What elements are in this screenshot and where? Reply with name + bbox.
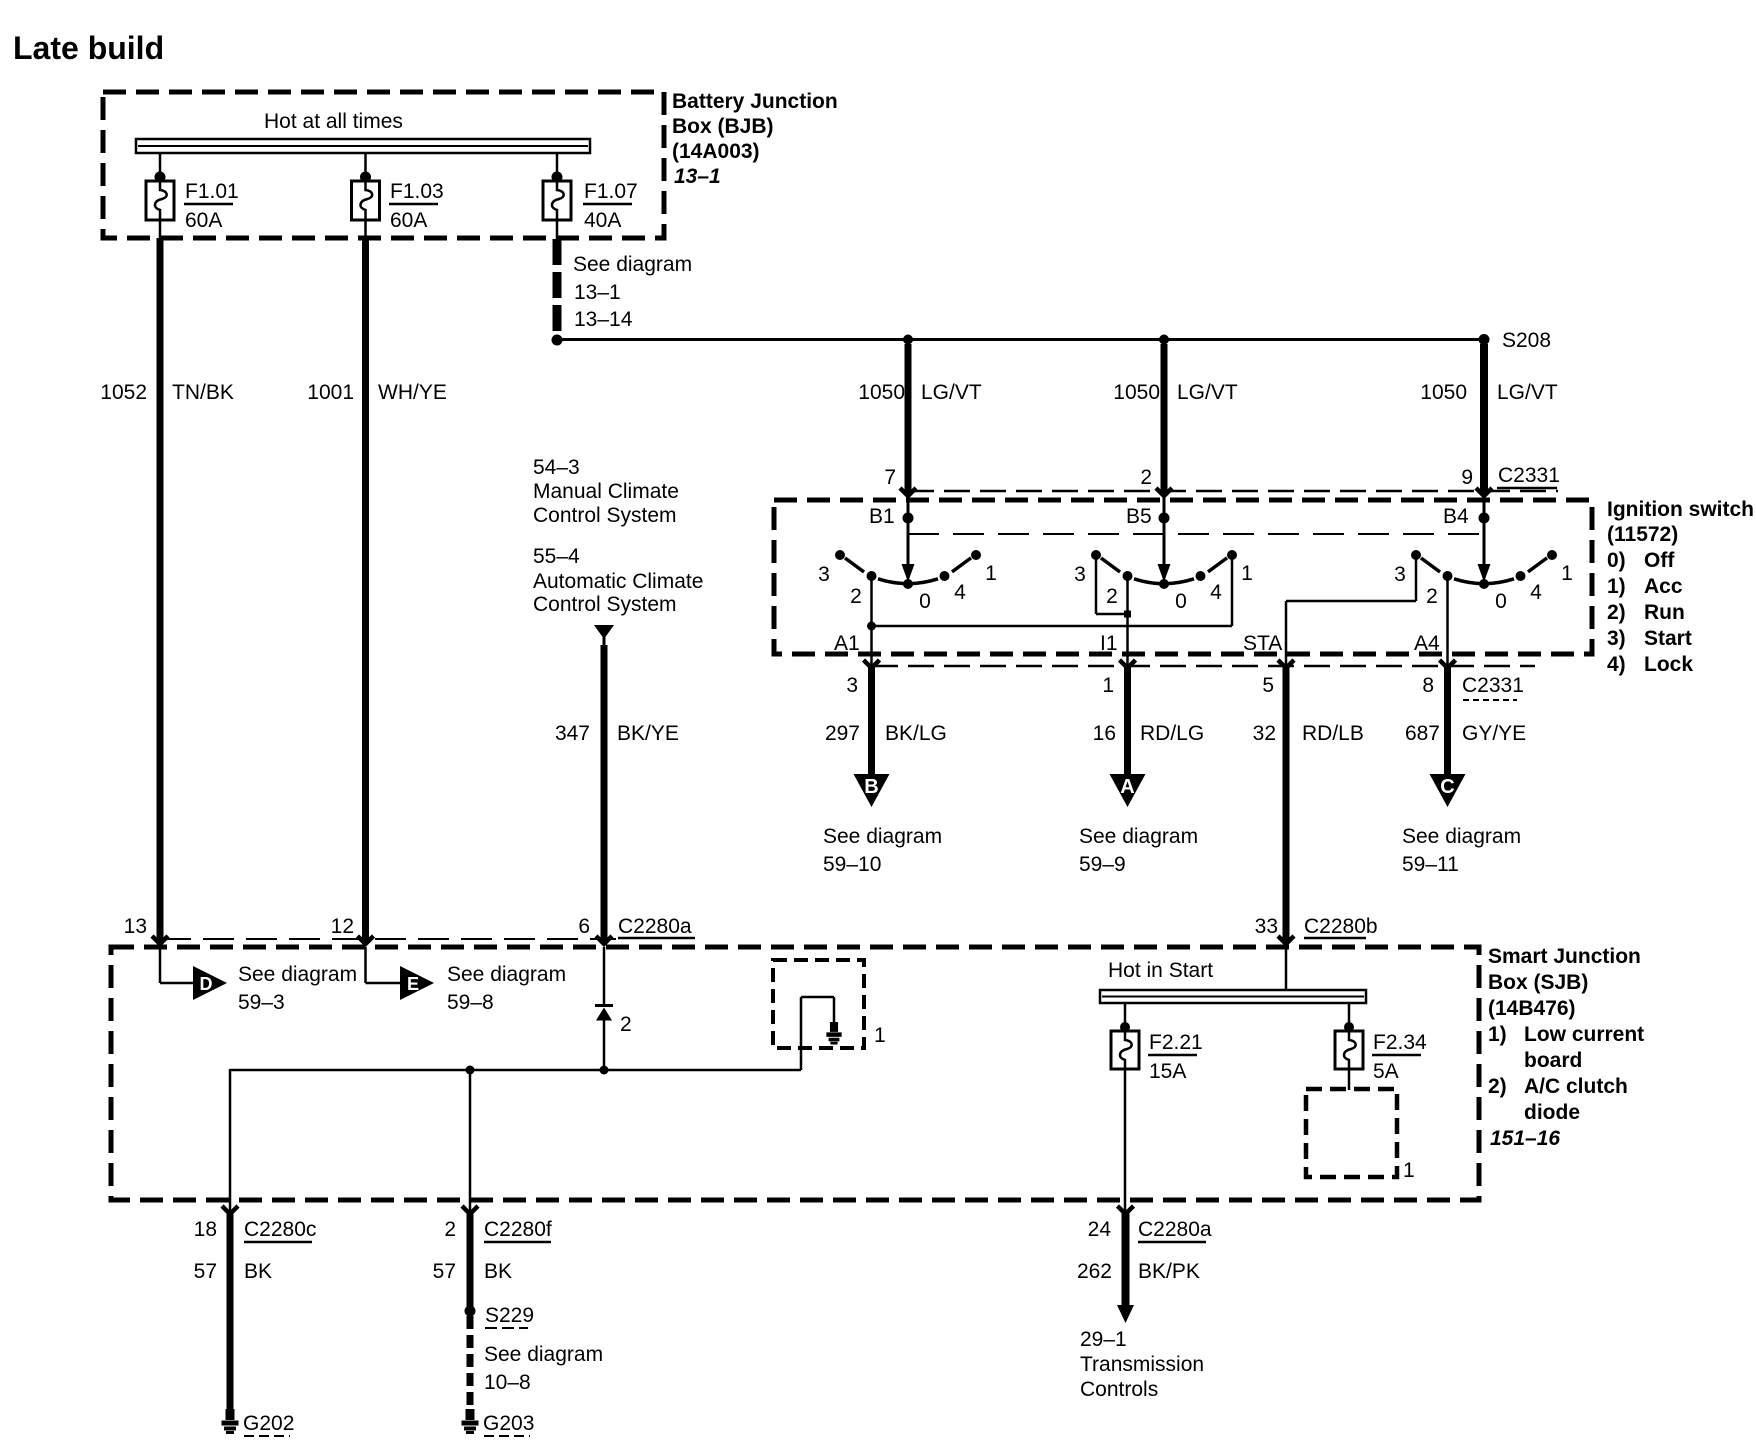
svg-text:262: 262 xyxy=(1077,1260,1112,1283)
pin 5 exit arrow xyxy=(1278,660,1294,668)
svg-text:Control System: Control System xyxy=(533,504,677,527)
switch contact arc B5 xyxy=(1101,558,1227,584)
svg-text:See diagram: See diagram xyxy=(823,825,942,848)
svg-text:See diagram: See diagram xyxy=(447,963,566,986)
label See diagram 59-9 xyxy=(1079,825,1198,876)
contact dot position 2 (B4) xyxy=(1443,571,1453,581)
svg-text:Box (BJB): Box (BJB) xyxy=(672,115,774,138)
fuse F2.34 5A xyxy=(1335,1031,1427,1083)
svg-text:57: 57 xyxy=(194,1260,217,1283)
Battery Junction Box (BJB) enclosure xyxy=(103,92,664,238)
svg-text:Ignition switch: Ignition switch xyxy=(1607,498,1754,521)
svg-text:S208: S208 xyxy=(1502,329,1551,352)
wire fuse F1.03 to box edge xyxy=(364,220,367,240)
label 347 BK/YE xyxy=(555,722,679,745)
svg-text:59–10: 59–10 xyxy=(823,853,881,876)
label See diagram 59-11 xyxy=(1402,825,1521,876)
svg-text:3: 3 xyxy=(1394,563,1406,586)
svg-text:Late build: Late build xyxy=(13,30,164,66)
svg-text:C2280f: C2280f xyxy=(484,1218,552,1241)
ground bus horizontal wire xyxy=(230,1069,801,1072)
svg-text:2: 2 xyxy=(1140,466,1152,489)
svg-text:1: 1 xyxy=(985,562,997,585)
wire fuse F1.07 to box edge xyxy=(556,220,559,240)
contact dot position 3 (B5) xyxy=(1091,550,1101,560)
svg-text:(14B476): (14B476) xyxy=(1488,997,1576,1020)
splice S229 xyxy=(465,1304,535,1328)
wire S229 dashed to G203 xyxy=(467,1316,474,1408)
svg-text:151–16: 151–16 xyxy=(1490,1127,1560,1150)
off-page arrow B xyxy=(854,774,890,807)
svg-text:4: 4 xyxy=(1210,581,1222,604)
position labels (B5) xyxy=(1074,562,1253,613)
svg-text:59–9: 59–9 xyxy=(1079,853,1126,876)
wire I1 from position 2 of B5 xyxy=(1126,576,1129,669)
position labels (B4) xyxy=(1394,562,1573,613)
pin 1 exit arrow xyxy=(1120,660,1136,668)
label 16 RD/LG xyxy=(1093,722,1205,745)
junction dot above fuse F1.03 xyxy=(360,172,371,183)
svg-text:57: 57 xyxy=(433,1260,456,1283)
wire pin 12 to arrow E xyxy=(366,947,401,983)
svg-text:1): 1) xyxy=(1607,575,1626,598)
label 32 RD/LB xyxy=(1253,722,1364,745)
connector C2280b label xyxy=(1304,915,1378,938)
svg-text:347: 347 xyxy=(555,722,590,745)
node S208 junction dot xyxy=(552,335,563,346)
title Late build xyxy=(13,30,164,66)
label See diagram 10-8 xyxy=(484,1343,603,1394)
svg-text:1: 1 xyxy=(1561,562,1573,585)
svg-text:Off: Off xyxy=(1644,549,1675,572)
contact dot position 3 (B4) xyxy=(1411,550,1421,560)
label 54-3 Manual Climate Control System xyxy=(533,456,679,527)
svg-text:Control System: Control System xyxy=(533,593,677,616)
wire to internal ground xyxy=(801,997,834,1070)
contact dot position 1 (B4) xyxy=(1547,550,1557,560)
off-page arrow E xyxy=(400,966,434,1000)
wire fuse F1.01 to box edge xyxy=(159,220,162,240)
svg-text:Acc: Acc xyxy=(1644,575,1683,598)
svg-text:297: 297 xyxy=(825,722,860,745)
svg-text:Controls: Controls xyxy=(1080,1378,1158,1401)
svg-text:13: 13 xyxy=(124,915,147,938)
svg-text:2: 2 xyxy=(850,585,862,608)
svg-text:Lock: Lock xyxy=(1644,653,1693,676)
svg-text:1050: 1050 xyxy=(858,381,905,404)
label 1001 WH/YE xyxy=(307,381,447,404)
contact dot position 3 (B1) xyxy=(835,550,845,560)
svg-text:Battery Junction: Battery Junction xyxy=(672,90,838,113)
svg-text:2: 2 xyxy=(1426,585,1438,608)
pin 12 entry arrow xyxy=(331,915,374,944)
svg-text:1: 1 xyxy=(1403,1159,1415,1182)
junction dot S208 branch 2 xyxy=(1159,335,1169,345)
label 29-1 Transmission Controls xyxy=(1080,1328,1204,1401)
svg-text:1: 1 xyxy=(1241,562,1253,585)
svg-text:A4: A4 xyxy=(1414,632,1440,655)
svg-text:54–3: 54–3 xyxy=(533,456,580,479)
wire pin 6 to diode xyxy=(603,947,606,1005)
bus bar Hot at all times xyxy=(136,139,590,153)
junction dot B5 xyxy=(1159,513,1170,524)
connector C2331 dashed line bottom xyxy=(872,665,1535,668)
junction dot above fuse F1.01 xyxy=(155,172,166,183)
bus bar Hot in Start xyxy=(1100,990,1366,1003)
svg-text:0): 0) xyxy=(1607,549,1626,572)
contact dot position 0 (B1) xyxy=(903,579,913,589)
svg-text:0: 0 xyxy=(1495,590,1507,613)
svg-text:F1.03: F1.03 xyxy=(390,180,444,203)
svg-text:See diagram: See diagram xyxy=(1402,825,1521,848)
connector C2280a top label xyxy=(618,915,695,938)
connector C2331 dashed line top xyxy=(908,490,1558,493)
svg-text:16: 16 xyxy=(1093,722,1116,745)
pin 3 exit arrow xyxy=(864,660,880,668)
SJB label xyxy=(1488,945,1644,1150)
svg-text:15A: 15A xyxy=(1149,1060,1186,1083)
ground G202 xyxy=(222,1409,295,1436)
svg-text:Low current: Low current xyxy=(1524,1023,1644,1046)
connector C2280f label xyxy=(484,1218,552,1242)
switch wiper arrow B5 xyxy=(1158,496,1171,582)
pin 7 xyxy=(884,466,896,489)
svg-text:(11572): (11572) xyxy=(1607,523,1678,546)
label See diagram 59-10 xyxy=(823,825,942,876)
svg-text:0: 0 xyxy=(1175,590,1187,613)
label 57 BK (G203) xyxy=(433,1260,512,1283)
svg-text:(14A003): (14A003) xyxy=(672,140,760,163)
svg-text:13–1: 13–1 xyxy=(574,281,621,304)
svg-text:6: 6 xyxy=(578,915,590,938)
contact dot position 2 (B1) xyxy=(867,571,877,581)
off-page arrow C xyxy=(1430,774,1466,807)
svg-text:G203: G203 xyxy=(483,1412,534,1435)
svg-text:8: 8 xyxy=(1422,674,1434,697)
svg-text:board: board xyxy=(1524,1049,1582,1072)
label Hot in Start xyxy=(1108,959,1213,982)
pin 13 entry arrow xyxy=(124,915,168,944)
junction dot above fuse F2.34 xyxy=(1344,1022,1354,1032)
svg-text:GY/YE: GY/YE xyxy=(1462,722,1526,745)
connector C2280a dashed line xyxy=(160,938,616,940)
terminal B4 label xyxy=(1443,505,1469,528)
wire A1 from position 2 of B1 xyxy=(870,576,873,669)
svg-text:Start: Start xyxy=(1644,627,1692,650)
wire pin 33 to bus bar xyxy=(1285,947,1288,990)
terminal A4 label xyxy=(1414,632,1440,655)
svg-text:B1: B1 xyxy=(869,505,895,528)
label 1052 TN/BK xyxy=(100,381,234,404)
svg-text:C2280c: C2280c xyxy=(244,1218,316,1241)
wire bus bar to fuse F1.03 xyxy=(364,152,367,177)
svg-text:55–4: 55–4 xyxy=(533,545,580,568)
svg-text:A: A xyxy=(1120,776,1134,798)
wire fuse F2.21 to pin 24 exit xyxy=(1124,1069,1127,1213)
wire bus bar to fuse F1.07 xyxy=(556,152,559,177)
svg-text:S229: S229 xyxy=(485,1304,534,1327)
fuse F1.01 60A xyxy=(146,180,239,232)
wire bus bar to fuse F2.34 xyxy=(1348,1002,1351,1027)
svg-text:BK/PK: BK/PK xyxy=(1138,1260,1200,1283)
internal ground symbol xyxy=(826,1022,841,1043)
diode 2 (A/C clutch diode) xyxy=(595,1006,632,1037)
junction dot B1 xyxy=(903,513,914,524)
label 262 BK/PK xyxy=(1077,1260,1200,1283)
svg-text:29–1: 29–1 xyxy=(1080,1328,1127,1351)
junction dot S208 branch 1 xyxy=(903,335,913,345)
svg-text:STA: STA xyxy=(1243,632,1282,655)
svg-text:13–1: 13–1 xyxy=(674,165,721,188)
svg-text:2: 2 xyxy=(620,1013,632,1036)
wire 1052 TN/BK xyxy=(157,238,164,941)
pin 6 entry arrow xyxy=(578,915,612,944)
pin 8 exit arrow xyxy=(1440,660,1456,668)
svg-text:59–8: 59–8 xyxy=(447,991,494,1014)
connector C2331 bottom label xyxy=(1462,674,1524,700)
label 1050 LG/VT (B4) xyxy=(1420,381,1558,404)
svg-text:1): 1) xyxy=(1488,1023,1507,1046)
svg-text:A1: A1 xyxy=(834,632,860,655)
wire origin arrow 347 xyxy=(594,625,614,647)
label See diagram 13-1 13-14 xyxy=(573,253,692,331)
svg-text:5: 5 xyxy=(1262,674,1274,697)
wire 1050 LG/VT (B5) xyxy=(1156,344,1172,496)
pin 2 exit arrow xyxy=(444,1206,478,1241)
pin 18 exit arrow xyxy=(194,1206,238,1241)
wire 1001 WH/YE xyxy=(362,238,369,941)
position labels (B1) xyxy=(818,562,997,613)
svg-text:4: 4 xyxy=(1530,581,1542,604)
wire S208 horizontal xyxy=(557,338,1484,341)
svg-text:40A: 40A xyxy=(584,209,621,232)
svg-text:1: 1 xyxy=(1102,674,1114,697)
pin 33 entry arrow xyxy=(1255,915,1294,944)
svg-text:RD/LB: RD/LB xyxy=(1302,722,1364,745)
ignition switch internal dashed line xyxy=(908,533,1484,535)
svg-text:E: E xyxy=(407,974,419,994)
wire 32 RD/LB xyxy=(1283,667,1290,941)
svg-text:BK: BK xyxy=(244,1260,272,1283)
svg-text:C2280a: C2280a xyxy=(1138,1218,1212,1241)
BJB label xyxy=(672,90,838,188)
wire fuse F2.34 to A/C clutch diode xyxy=(1348,1069,1351,1090)
svg-text:1050: 1050 xyxy=(1420,381,1467,404)
svg-text:7: 7 xyxy=(884,466,896,489)
wire to pin 2 exit xyxy=(469,1070,472,1213)
svg-text:3: 3 xyxy=(846,674,858,697)
svg-text:I1: I1 xyxy=(1100,632,1118,655)
wire 347 BK/YE xyxy=(601,645,608,941)
junction dot above fuse F2.21 xyxy=(1120,1022,1130,1032)
wire 1050 LG/VT (B4) xyxy=(1476,344,1492,496)
svg-text:Manual Climate: Manual Climate xyxy=(533,480,679,503)
fuse F1.03 60A xyxy=(352,180,444,232)
label 57 BK (G202) xyxy=(194,1260,272,1283)
wire diode to ground bus xyxy=(603,1020,606,1070)
junction dot B4 xyxy=(1479,513,1490,524)
svg-text:LG/VT: LG/VT xyxy=(921,381,982,404)
svg-text:4: 4 xyxy=(954,581,966,604)
label 1050 LG/VT (B1) xyxy=(858,381,982,404)
svg-text:Hot in Start: Hot in Start xyxy=(1108,959,1213,982)
svg-text:59–11: 59–11 xyxy=(1402,853,1459,876)
svg-text:BK: BK xyxy=(484,1260,512,1283)
svg-text:C2280a: C2280a xyxy=(618,915,692,938)
wire bus bar to fuse F1.01 xyxy=(159,152,162,177)
svg-text:33: 33 xyxy=(1255,915,1278,938)
terminal B1 label xyxy=(869,505,895,528)
contact dot position 0 (B4) xyxy=(1479,579,1489,589)
pin 1 label xyxy=(1102,674,1114,697)
svg-text:5A: 5A xyxy=(1373,1060,1399,1083)
pin 9 xyxy=(1461,466,1473,489)
svg-text:0: 0 xyxy=(919,590,931,613)
label See diagram 59-3 xyxy=(238,963,357,1014)
svg-text:See diagram: See diagram xyxy=(573,253,692,276)
svg-text:1001: 1001 xyxy=(307,381,354,404)
svg-text:1050: 1050 xyxy=(1113,381,1160,404)
pin 8 label xyxy=(1422,674,1434,697)
low current board enclosure xyxy=(773,960,864,1048)
junction dot C2280f branch xyxy=(466,1066,475,1075)
wire A4 from position 2 of B4 xyxy=(1446,574,1449,669)
terminal B5 label xyxy=(1126,505,1152,528)
terminal I1 label xyxy=(1100,632,1118,655)
connector C2331 top label xyxy=(1497,464,1560,488)
contact dot position 4 (B4) xyxy=(1516,571,1526,581)
label See diagram 59-8 xyxy=(447,963,566,1014)
junction dot above fuse F1.07 xyxy=(552,172,563,183)
svg-text:Automatic Climate: Automatic Climate xyxy=(533,570,703,593)
svg-text:60A: 60A xyxy=(390,209,427,232)
wire 57 BK (G202) xyxy=(227,1213,234,1409)
pin 24 exit arrow xyxy=(1088,1206,1134,1241)
svg-text:BK/LG: BK/LG xyxy=(885,722,947,745)
svg-text:WH/YE: WH/YE xyxy=(378,381,447,404)
svg-text:3: 3 xyxy=(818,563,830,586)
connector C2280c label xyxy=(244,1218,316,1242)
off-page arrow A xyxy=(1110,774,1146,807)
svg-text:Smart Junction: Smart Junction xyxy=(1488,945,1641,968)
svg-text:C2331: C2331 xyxy=(1462,674,1524,697)
label 55-4 Automatic Climate Control System xyxy=(533,545,703,616)
switch contact arc B4 xyxy=(1421,558,1547,584)
contact dot position 4 (B1) xyxy=(940,571,950,581)
svg-text:C: C xyxy=(1440,776,1454,798)
svg-text:RD/LG: RD/LG xyxy=(1140,722,1204,745)
svg-text:13–14: 13–14 xyxy=(574,308,633,331)
svg-text:C2280b: C2280b xyxy=(1304,915,1378,938)
connector C2280a bottom label xyxy=(1138,1218,1212,1242)
svg-text:D: D xyxy=(200,974,213,994)
svg-text:3): 3) xyxy=(1607,627,1626,650)
pin 2 xyxy=(1140,466,1152,489)
svg-text:F1.01: F1.01 xyxy=(185,180,239,203)
svg-text:2: 2 xyxy=(1106,585,1118,608)
wire pin 13 to arrow D xyxy=(160,947,193,983)
wire 297 BK/LG xyxy=(868,667,875,775)
Smart Junction Box (SJB) enclosure xyxy=(111,947,1479,1200)
svg-text:F2.21: F2.21 xyxy=(1149,1031,1203,1054)
contact dot position 2 (B5) xyxy=(1123,571,1133,581)
svg-text:C2331: C2331 xyxy=(1498,464,1560,487)
svg-text:59–3: 59–3 xyxy=(238,991,285,1014)
contact dot position 1 (B1) xyxy=(971,550,981,560)
svg-text:A/C clutch: A/C clutch xyxy=(1524,1075,1628,1098)
svg-text:2: 2 xyxy=(444,1218,456,1241)
ground G203 xyxy=(462,1409,535,1436)
svg-text:60A: 60A xyxy=(185,209,222,232)
svg-text:1: 1 xyxy=(874,1024,886,1047)
arrow to transmission controls xyxy=(1117,1305,1134,1323)
svg-text:18: 18 xyxy=(194,1218,217,1241)
wire A1 to position 1 of B5 xyxy=(872,556,1233,626)
svg-text:Hot at all times: Hot at all times xyxy=(264,110,403,133)
svg-text:B5: B5 xyxy=(1126,505,1152,528)
wire F1.07 dashed to S208 xyxy=(553,239,562,334)
svg-text:9: 9 xyxy=(1461,466,1473,489)
fuse F1.07 40A xyxy=(543,180,638,232)
label 687 GY/YE xyxy=(1405,722,1526,745)
svg-text:12: 12 xyxy=(331,915,354,938)
wire I1 from position 3 of B5 xyxy=(1096,556,1128,614)
wire 16 RD/LG xyxy=(1124,667,1131,775)
switch contact arc B1 xyxy=(845,558,971,584)
svg-text:B: B xyxy=(864,776,878,798)
svg-text:32: 32 xyxy=(1253,722,1276,745)
contact dot position 4 (B5) xyxy=(1196,571,1206,581)
contact dot position 1 (B5) xyxy=(1227,550,1237,560)
svg-text:2): 2) xyxy=(1488,1075,1507,1098)
svg-text:G202: G202 xyxy=(243,1412,294,1435)
svg-text:F2.34: F2.34 xyxy=(1373,1031,1427,1054)
svg-text:LG/VT: LG/VT xyxy=(1497,381,1558,404)
junction dot S208 branch 3 xyxy=(1479,334,1490,345)
svg-text:diode: diode xyxy=(1524,1101,1580,1124)
label 297 BK/LG xyxy=(825,722,947,745)
svg-text:BK/YE: BK/YE xyxy=(617,722,679,745)
wire 687 GY/YE xyxy=(1444,667,1451,775)
switch wiper arrow B1 xyxy=(902,496,915,582)
switch wiper arrow B4 xyxy=(1478,496,1491,582)
wire 262 BK/PK xyxy=(1122,1213,1130,1306)
svg-text:2): 2) xyxy=(1607,601,1626,624)
svg-text:See diagram: See diagram xyxy=(1079,825,1198,848)
svg-text:TN/BK: TN/BK xyxy=(172,381,234,404)
svg-text:3: 3 xyxy=(1074,563,1086,586)
wire to pin 18 exit xyxy=(229,1069,232,1213)
svg-text:Box (SJB): Box (SJB) xyxy=(1488,971,1588,994)
wire STA from position 3 of B4 xyxy=(1286,556,1416,669)
junction dot diode branch xyxy=(600,1066,609,1075)
terminal A1 label xyxy=(834,632,860,655)
svg-text:24: 24 xyxy=(1088,1218,1112,1241)
wire bus bar to fuse F2.21 xyxy=(1124,1002,1127,1027)
svg-text:1052: 1052 xyxy=(100,381,147,404)
svg-text:See diagram: See diagram xyxy=(238,963,357,986)
label 1050 LG/VT (B5) xyxy=(1113,381,1238,404)
label Hot at all times xyxy=(264,110,403,133)
label 1 (low current board) xyxy=(874,1024,886,1047)
svg-text:B4: B4 xyxy=(1443,505,1469,528)
wire 57 BK (G203) xyxy=(467,1213,474,1307)
svg-text:Transmission: Transmission xyxy=(1080,1353,1204,1376)
off-page arrow D xyxy=(193,966,227,1000)
svg-text:10–8: 10–8 xyxy=(484,1371,531,1394)
fuse F2.21 15A xyxy=(1111,1031,1203,1083)
svg-text:Run: Run xyxy=(1644,601,1685,624)
